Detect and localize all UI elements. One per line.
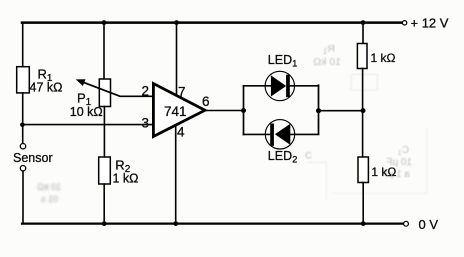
svg-text:741: 741 xyxy=(164,104,187,119)
svg-text:+ 12 V: + 12 V xyxy=(411,16,449,31)
svg-text:1 kΩ: 1 kΩ xyxy=(371,51,396,65)
svg-text:Sensor: Sensor xyxy=(13,151,53,165)
svg-text:3: 3 xyxy=(142,115,150,130)
svg-text:1 kΩ: 1 kΩ xyxy=(113,172,139,186)
svg-text:10 kΩ: 10 kΩ xyxy=(313,56,341,68)
svg-text:10 kΩ: 10 kΩ xyxy=(37,182,61,192)
svg-text:6: 6 xyxy=(202,94,210,109)
svg-text:47 kΩ: 47 kΩ xyxy=(30,81,63,95)
svg-text:C: C xyxy=(305,151,312,162)
svg-text:1 kΩ: 1 kΩ xyxy=(371,165,396,179)
svg-text:2: 2 xyxy=(142,83,150,98)
svg-text:4: 4 xyxy=(177,125,185,140)
svg-text:0 V: 0 V xyxy=(419,217,439,232)
svg-text:10 kΩ: 10 kΩ xyxy=(70,105,103,119)
svg-text:01 s: 01 s xyxy=(40,194,58,204)
svg-text:7: 7 xyxy=(178,84,186,99)
